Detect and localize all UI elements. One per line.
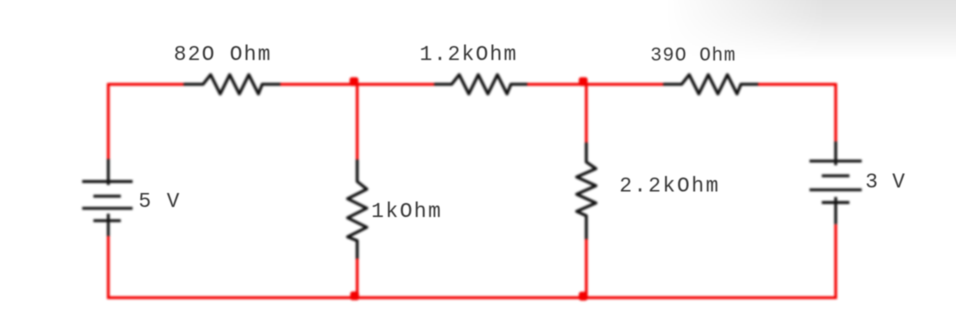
wire bottom (ground rail) bbox=[107, 296, 837, 299]
wire middle-1 vertical bottom (R4 down to bottom wire) bbox=[356, 259, 359, 298]
label R2 value 1.2kOhm bbox=[420, 44, 518, 67]
wire middle-2 vertical bottom (R5 down to bottom wire) bbox=[585, 239, 588, 298]
wire middle-2 vertical top (node C down to R5) bbox=[585, 84, 588, 143]
resistor R2 1.2kOhm bbox=[435, 75, 527, 94]
svg-text:82O Ohm: 82O Ohm bbox=[174, 44, 272, 67]
node D junction dot (bottom, under node B) bbox=[350, 292, 359, 301]
wire R3 right to top-right corner bbox=[758, 83, 836, 86]
wire top-left (node A to R1 left) bbox=[108, 83, 185, 86]
svg-text:5 V: 5 V bbox=[139, 191, 181, 214]
resistor R3 390 Ohm bbox=[664, 75, 758, 94]
label V2 value 3 V bbox=[865, 171, 906, 194]
svg-text:2.2kOhm: 2.2kOhm bbox=[619, 175, 720, 198]
svg-text:1kOhm: 1kOhm bbox=[371, 201, 442, 224]
wire left vertical bottom (battery V1 to bottom-left corner) bbox=[107, 236, 110, 299]
label R1 value 820 Ohm bbox=[174, 44, 272, 67]
wire R2 right to node C bbox=[527, 83, 586, 86]
wire middle-1 vertical top (node B down to R4) bbox=[356, 84, 359, 161]
resistor R5 2.2kOhm (vertical) bbox=[577, 144, 596, 239]
label R5 value 2.2kOhm bbox=[619, 175, 720, 198]
svg-text:39O Ohm: 39O Ohm bbox=[650, 44, 736, 66]
battery V1 5V bbox=[82, 159, 132, 236]
battery V2 3V bbox=[810, 141, 862, 224]
wire right vertical top (corner to battery V2) bbox=[834, 83, 837, 141]
svg-text:3 V: 3 V bbox=[865, 171, 906, 194]
node B junction dot (top) bbox=[350, 77, 359, 86]
label V1 value 5 V bbox=[139, 191, 181, 214]
resistor R4 1kOhm (vertical) bbox=[348, 161, 367, 259]
node E junction dot (bottom, under node C) bbox=[579, 292, 588, 301]
label R4 value 1kOhm bbox=[371, 201, 442, 224]
resistor R1 820 Ohm bbox=[185, 75, 280, 94]
wire R1 right to node B bbox=[280, 83, 357, 86]
svg-text:1.2kOhm: 1.2kOhm bbox=[420, 44, 518, 67]
label R3 value 390 Ohm bbox=[650, 44, 736, 66]
wire node B to R2 left bbox=[357, 83, 435, 86]
node C junction dot (top) bbox=[579, 77, 588, 86]
wire right vertical bottom (battery V2 to bottom-right corner) bbox=[834, 224, 837, 299]
wire node C to R3 left bbox=[586, 83, 664, 86]
wire left vertical top (corner to battery V1) bbox=[107, 83, 110, 159]
